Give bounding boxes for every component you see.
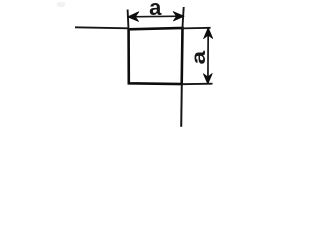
arrowhead up (right dimension) xyxy=(204,28,213,39)
wire: left leader line xyxy=(75,27,129,28)
dimension line right xyxy=(207,29,209,84)
extension line right (top dimension) xyxy=(182,7,183,29)
extension line top (right dimension) xyxy=(183,27,211,30)
wire: vertical line below square xyxy=(180,84,183,127)
arrowhead left (top dimension) xyxy=(128,12,139,22)
dimension line top xyxy=(129,15,184,18)
arrowhead down (right dimension) xyxy=(203,74,212,84)
svg-text:a: a xyxy=(149,0,162,20)
svg-text:a: a xyxy=(187,50,209,64)
arrowhead right (top dimension) xyxy=(173,12,184,21)
scan smudge xyxy=(57,2,66,8)
extension line left (top dimension) xyxy=(127,10,130,30)
extension line bottom (right dimension) xyxy=(182,83,213,86)
square profile (part outline) xyxy=(129,28,183,84)
